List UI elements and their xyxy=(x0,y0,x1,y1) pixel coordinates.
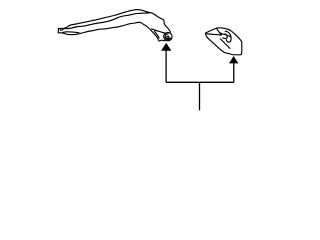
barrel inner cap line xyxy=(155,31,160,38)
barrel rim arc xyxy=(165,34,170,40)
right callout arrowhead xyxy=(229,56,238,63)
callout horizontal bracket line xyxy=(166,81,234,83)
molding strip left tip edge xyxy=(57,29,59,33)
clip hook outer curve xyxy=(225,31,231,42)
molding strip accent line xyxy=(64,13,150,29)
clip top-face fold line xyxy=(206,33,221,35)
left callout arrowhead xyxy=(161,43,171,51)
molding tip detail line xyxy=(63,28,66,29)
barrel seam line xyxy=(152,29,166,34)
callout stem line xyxy=(199,82,201,110)
molding strip top edge xyxy=(58,10,170,33)
molding tip oval hole xyxy=(60,29,63,31)
barrel outer circle xyxy=(164,32,172,40)
clip hook inner curve xyxy=(223,34,227,39)
clip thickness line xyxy=(220,33,231,37)
clip notch fold line xyxy=(217,29,222,35)
molding strip bottom edge xyxy=(58,22,165,41)
molding strip lower accent near tip xyxy=(63,31,79,34)
barrel inner circle xyxy=(167,36,169,38)
right callout vertical line xyxy=(233,63,235,82)
clip interior fold diagonal xyxy=(220,39,230,49)
clip outline xyxy=(206,28,242,55)
left callout vertical line xyxy=(165,51,167,83)
